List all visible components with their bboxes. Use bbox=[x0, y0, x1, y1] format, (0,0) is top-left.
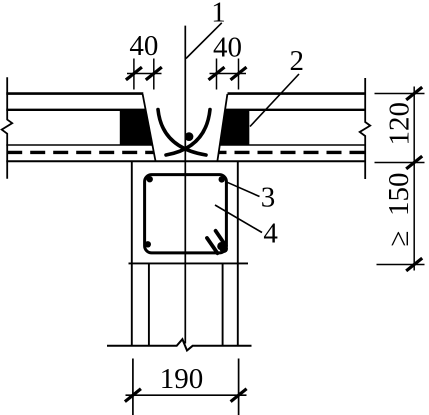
wire slab bottom line full width bbox=[6, 160, 365, 162]
svg-text:40: 40 bbox=[213, 32, 242, 64]
wire right slab edge with break bbox=[360, 78, 371, 179]
joint bar dot bbox=[185, 132, 194, 141]
stirrup corner blob bottom-right bbox=[220, 245, 228, 253]
wire joint bottom line bbox=[129, 262, 249, 264]
wire left slab second line bbox=[6, 109, 145, 111]
dimension 40 left line bbox=[127, 73, 162, 75]
stirrup hook stroke lower bbox=[207, 238, 218, 253]
wire left slab lower line bbox=[6, 144, 152, 146]
svg-text:190: 190 bbox=[160, 363, 204, 395]
svg-text:120: 120 bbox=[384, 102, 416, 146]
dimension 40 left tick 2 bbox=[146, 67, 162, 80]
wire column inner left bbox=[148, 263, 150, 346]
right dim extension bottom bbox=[377, 264, 425, 266]
dimension 40 left extension stubs bbox=[133, 59, 135, 90]
bent bar right curve bbox=[166, 110, 210, 156]
label 2 leader bbox=[250, 74, 299, 127]
rebar dot bottom-right bbox=[217, 242, 225, 250]
wire left slab top line bbox=[6, 92, 143, 95]
sealing pad right (filled) bbox=[220, 111, 249, 145]
bottom dimension line bbox=[126, 394, 247, 396]
right dim tick bottom bbox=[406, 258, 422, 271]
svg-text:1: 1 bbox=[211, 0, 226, 29]
svg-text:2: 2 bbox=[290, 45, 305, 77]
wire right slab second line bbox=[225, 109, 365, 111]
rebar dot bottom-left bbox=[145, 241, 151, 247]
right dim extension top bbox=[375, 93, 425, 95]
wire column inner right bbox=[222, 263, 224, 346]
svg-text:40: 40 bbox=[129, 30, 158, 62]
wire left slab edge with break bbox=[2, 77, 13, 179]
dimension 40 right line bbox=[210, 73, 247, 75]
bottom dim tick left bbox=[125, 389, 141, 402]
label 4 leader bbox=[215, 205, 262, 233]
svg-text:≥ 150: ≥ 150 bbox=[383, 173, 415, 247]
rebar dot top-right bbox=[219, 176, 225, 182]
label 3 leader bbox=[225, 181, 260, 196]
wire left slab dashed line bbox=[7, 151, 153, 154]
right dimension line vertical bbox=[413, 87, 415, 271]
wire right slab dashed line bbox=[218, 151, 365, 154]
bent bar left curve bbox=[158, 110, 206, 156]
wire right slab top line bbox=[228, 92, 366, 95]
wire column outer left bbox=[131, 161, 133, 346]
wire right slab lower line bbox=[220, 144, 365, 146]
stirrup hook stroke upper bbox=[216, 231, 226, 246]
right dim tick top bbox=[406, 87, 422, 100]
wire bottom break line with zigzag bbox=[107, 339, 252, 350]
wire column outer right bbox=[237, 161, 239, 346]
wire left slab sloped joint edge bbox=[143, 94, 156, 161]
bottom dimension extension right bbox=[238, 359, 240, 415]
right dim tick middle bbox=[406, 156, 422, 169]
svg-text:3: 3 bbox=[261, 181, 276, 213]
dimension 40 right extension stubs bbox=[216, 59, 218, 90]
bottom dimension extension left bbox=[132, 359, 134, 415]
svg-text:4: 4 bbox=[263, 217, 278, 249]
sealing pad left (filled) bbox=[120, 111, 152, 145]
rebar dot top-left bbox=[147, 176, 153, 182]
bottom dim tick right bbox=[231, 389, 247, 402]
stirrup square bbox=[145, 175, 227, 253]
label 1 leader bbox=[186, 23, 222, 59]
dimension 40 left tick 1 bbox=[126, 67, 142, 80]
right dim extension middle bbox=[375, 162, 425, 164]
wire right slab sloped joint edge bbox=[217, 94, 227, 161]
node centerline bbox=[184, 26, 186, 344]
dimension 40 right tick 1 bbox=[209, 67, 225, 80]
dimension 40 right tick 2 bbox=[231, 67, 247, 80]
